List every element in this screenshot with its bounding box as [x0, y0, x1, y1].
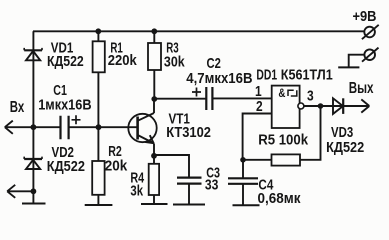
- wire R3 branch: [153, 31, 155, 99]
- ground (top right): [338, 66, 359, 68]
- wire R4 branch: [153, 156, 155, 204]
- svg-text:220k: 220k: [108, 51, 137, 68]
- output arrow Вых: [343, 99, 369, 112]
- wire C3 to ground: [188, 184, 190, 205]
- ground (C4): [233, 204, 260, 206]
- node collector junction: [151, 96, 157, 102]
- resistor R3: [148, 43, 161, 70]
- wire terminal common to ground: [349, 55, 365, 68]
- svg-text:Вх: Вх: [10, 98, 25, 115]
- svg-text:3k: 3k: [130, 182, 143, 199]
- resistor R4: [149, 164, 159, 195]
- svg-text:20k: 20k: [105, 158, 128, 175]
- node C1/R1/base junction: [96, 124, 102, 130]
- wire R1 branch: [97, 31, 99, 127]
- wire output: [304, 105, 361, 107]
- terminal +9V: [362, 25, 379, 39]
- svg-text:3: 3: [307, 87, 314, 104]
- wire pin2 feedback: [243, 114, 272, 160]
- input arrow common: [7, 185, 33, 198]
- wire R2 branch: [97, 127, 99, 205]
- wire left vertical bus: [32, 31, 34, 203]
- wire emitter to C3: [154, 155, 189, 177]
- symbol hysteresis: [288, 90, 297, 96]
- transistor VT1: [128, 99, 156, 156]
- diode VD2: [24, 157, 42, 169]
- svg-text:DD1: DD1: [256, 65, 277, 82]
- svg-text:+9В: +9В: [353, 7, 377, 24]
- inverter bubble pin3: [298, 103, 304, 109]
- capacitor C4: [228, 178, 258, 184]
- ground (C3): [173, 204, 205, 206]
- diode VD3: [333, 98, 343, 114]
- node emitter junction: [151, 153, 157, 159]
- svg-text:Вых: Вых: [349, 79, 374, 96]
- node feedback/C4 junction: [240, 157, 246, 163]
- resistor R2: [92, 161, 104, 195]
- capacitor C2: [206, 87, 212, 110]
- resistor R5: [272, 154, 301, 165]
- svg-text:КТ3102: КТ3102: [166, 123, 211, 140]
- capacitor C1: [61, 116, 69, 140]
- svg-text:30k: 30k: [164, 53, 185, 69]
- node input junction: [31, 124, 37, 130]
- svg-text:КД522: КД522: [47, 157, 85, 174]
- diode VD1: [24, 48, 42, 60]
- ground (input): [22, 203, 46, 205]
- wire R5 run: [243, 106, 321, 160]
- svg-text:К561ТЛ1: К561ТЛ1: [281, 65, 333, 82]
- polarity + of C2: [192, 88, 201, 97]
- node lower input junction: [31, 188, 37, 194]
- wire C4 to ground: [242, 184, 244, 206]
- svg-text:1: 1: [255, 83, 262, 100]
- IC DD1 K561TL1 Schmitt NAND gate box: [272, 86, 300, 128]
- wire main input line: [33, 126, 137, 128]
- svg-text:33: 33: [205, 176, 219, 192]
- wire collector to C2 to DD1 pin1: [154, 97, 271, 99]
- capacitor C3: [177, 178, 202, 184]
- resistor R1: [93, 41, 105, 72]
- node rail R3: [151, 28, 157, 34]
- svg-text:&: &: [278, 87, 285, 100]
- svg-text:КД522: КД522: [47, 53, 84, 69]
- polarity + of C1: [72, 115, 81, 124]
- ground (R4): [141, 203, 168, 205]
- wire C4 top: [242, 160, 244, 179]
- wire +9V top rail: [33, 30, 364, 32]
- terminal common: [362, 48, 379, 62]
- svg-text:2: 2: [256, 98, 263, 115]
- svg-text:0,68мк: 0,68мк: [258, 190, 302, 207]
- svg-text:1мкх16В: 1мкх16В: [38, 95, 91, 112]
- svg-text:R5 100k: R5 100k: [258, 131, 308, 148]
- node output junction: [318, 103, 324, 109]
- svg-text:4,7мкх16В: 4,7мкх16В: [186, 69, 252, 86]
- input arrow Вх: [5, 121, 33, 134]
- ground (R2): [85, 204, 113, 206]
- svg-text:КД522: КД522: [326, 138, 364, 155]
- node rail R1: [95, 28, 101, 34]
